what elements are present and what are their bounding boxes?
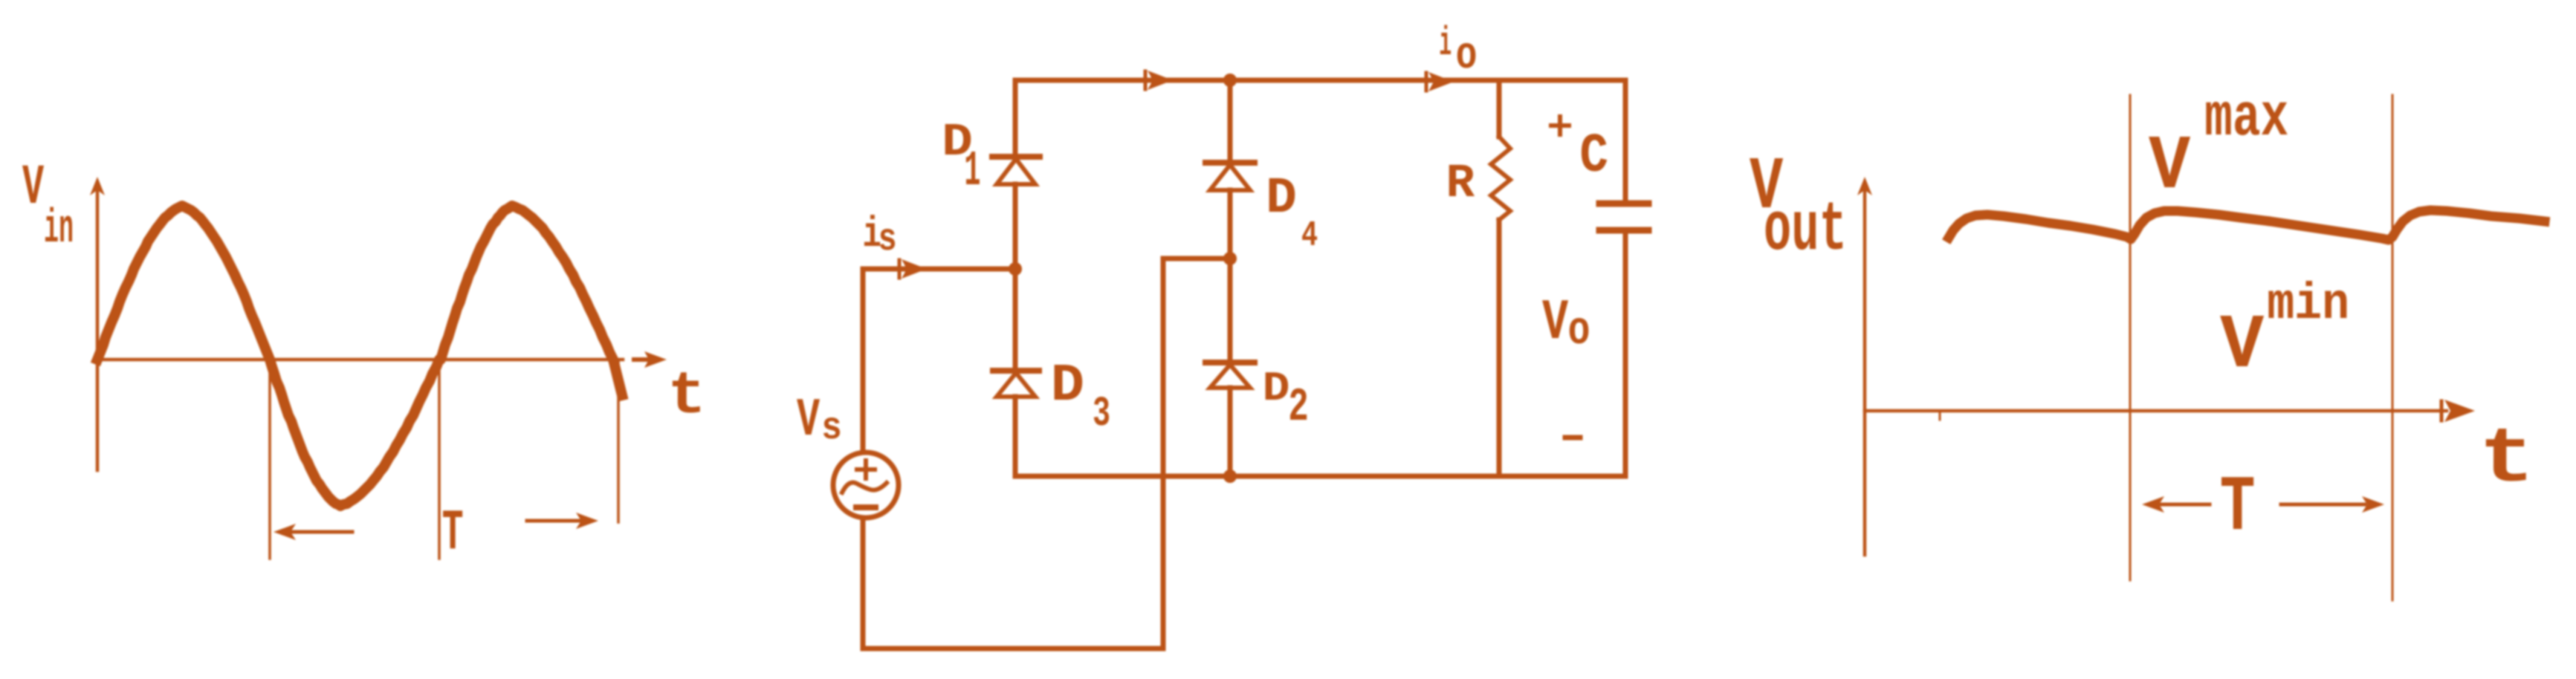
left graph t-axis arrow: [634, 351, 667, 368]
marker line at T: [438, 360, 441, 559]
svg-text:T: T: [2220, 464, 2256, 553]
wire: source bottom: [861, 519, 866, 649]
wire: across to node B: [1163, 256, 1230, 261]
svg-text:V: V: [797, 389, 820, 451]
resistor R zigzag: [1491, 137, 1510, 220]
right period arrow (pointing right): [527, 513, 598, 529]
svg-text:max: max: [2204, 85, 2288, 153]
top wire: [1015, 78, 1625, 83]
T left arrow (pointing left): [2142, 496, 2210, 513]
svg-text:out: out: [1764, 192, 1847, 270]
svg-text:4: 4: [1301, 215, 1318, 256]
svg-text:i: i: [1439, 21, 1452, 67]
svg-text:D: D: [1263, 365, 1290, 412]
current arrow on top wire: [1145, 71, 1173, 90]
minus sign of Vo: [1565, 435, 1580, 441]
wire: node A down to diode D3: [1013, 269, 1018, 369]
wire: bottom up to node B level: [1161, 259, 1166, 649]
svg-text:R: R: [1446, 157, 1475, 211]
svg-text:o: o: [1568, 305, 1590, 357]
svg-text:s: s: [821, 406, 842, 450]
wire: D3 down to lower rail: [1013, 397, 1018, 476]
wire: node A down to source: [861, 269, 866, 452]
label V_in: [22, 156, 74, 256]
label D2: [1263, 365, 1309, 434]
wire: node B down to diode D2: [1228, 259, 1233, 361]
input sine wave Vin: [97, 206, 622, 506]
wire: D2 down to lower rail: [1228, 388, 1233, 476]
right graph t axis: [1865, 409, 2447, 413]
i_s wire: [863, 267, 1015, 272]
T right arrow (pointing right): [2281, 496, 2384, 513]
lower rail junction dot: [1223, 470, 1237, 483]
vertical marker line 2: [2392, 95, 2394, 600]
svg-text:D: D: [1051, 357, 1085, 416]
left graph t axis: [97, 358, 623, 362]
vertical marker line 1: [2129, 95, 2132, 580]
svg-text:V: V: [1542, 291, 1569, 356]
source Vs circle: [833, 452, 899, 518]
node A junction dot: [1009, 262, 1022, 276]
label i_s: [863, 211, 897, 261]
wire: D4 down to node B: [1228, 190, 1233, 259]
Vs sine squiggle: [842, 483, 887, 493]
lower rail: [1015, 474, 1625, 479]
small tick on right t axis: [1939, 411, 1941, 420]
right t-axis arrowhead: [2441, 400, 2475, 422]
svg-text:V: V: [2220, 302, 2264, 389]
label Vs: [797, 389, 842, 451]
capacitor C plates: [1599, 204, 1648, 230]
Vs plus sign: [857, 461, 875, 478]
svg-text:C: C: [1579, 126, 1608, 188]
label Vo: [1542, 291, 1590, 357]
left graph V axis: [90, 177, 105, 470]
marker line at first zero crossing: [268, 360, 271, 559]
svg-text:t: t: [2479, 417, 2535, 504]
bottom return wire: [863, 646, 1163, 652]
marker line at end of second period: [617, 360, 620, 522]
svg-text:V: V: [2149, 123, 2190, 210]
diode D3: [993, 371, 1039, 397]
left period arrow (pointing left): [274, 524, 352, 540]
svg-text:2: 2: [1288, 381, 1309, 434]
i_s arrow: [899, 259, 927, 279]
Vs minus sign: [856, 504, 876, 510]
diode D2: [1206, 363, 1255, 388]
label V_out: [1750, 146, 1847, 270]
label V max: [2149, 85, 2288, 210]
svg-text:s: s: [878, 218, 897, 261]
svg-text:1: 1: [964, 143, 980, 200]
wire: top right corner down to capacitor: [1623, 80, 1628, 202]
svg-text:o: o: [1456, 30, 1478, 82]
wire: top wire down to diode D4: [1228, 80, 1233, 161]
svg-text:T: T: [442, 501, 464, 566]
node B junction dot: [1223, 252, 1237, 265]
svg-text:V: V: [22, 156, 44, 220]
svg-text:in: in: [44, 202, 74, 256]
wire: capacitor down to lower rail: [1623, 232, 1628, 476]
wire: top wire down to resistor R: [1497, 80, 1502, 137]
output ripple waveform: [1949, 210, 2545, 240]
plus sign near capacitor: [1551, 117, 1569, 134]
label i_o: [1439, 21, 1477, 82]
label D4: [1266, 170, 1318, 256]
wire: resistor down to lower rail: [1497, 220, 1502, 476]
svg-text:D: D: [1266, 170, 1297, 227]
diode D4: [1206, 163, 1255, 190]
wire: top wire down to diode D1: [1013, 80, 1018, 155]
label V min: [2220, 276, 2349, 389]
svg-text:3: 3: [1093, 391, 1110, 438]
i_o arrow: [1426, 72, 1454, 91]
svg-text:t: t: [667, 363, 706, 431]
label D1: [942, 116, 980, 200]
right graph V axis: [1857, 177, 1872, 555]
top junction node dot: [1223, 74, 1237, 87]
label D3: [1051, 357, 1110, 438]
svg-text:min: min: [2267, 276, 2349, 334]
wire: D1 down to node A: [1013, 184, 1018, 269]
diode D1: [992, 157, 1040, 184]
